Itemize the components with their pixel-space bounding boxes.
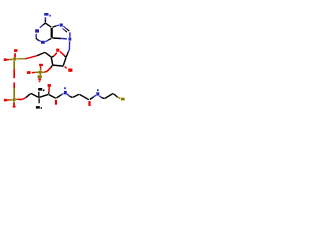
atom N10 label with H	[96, 89, 99, 95]
hydroxyl HO label left of P2	[4, 99, 13, 102]
bond C3p-OH	[48, 87, 51, 94]
atom N9 label	[69, 38, 72, 41]
bond C5'-O5' black half	[37, 52, 45, 55]
bond N7=C8 double	[62, 26, 69, 32]
bond C3p-C4a	[49, 95, 56, 99]
bond C2'-O2'	[65, 67, 67, 69]
bond N10-C11	[99, 96, 104, 99]
bond C6-C5	[46, 23, 52, 27]
atom P1 label	[13, 57, 16, 60]
oxygen O double-bonded below C4a amide 1	[55, 100, 57, 105]
oxygen O double-bonded above P1	[14, 49, 17, 57]
atom N3 label	[41, 41, 45, 44]
bond C5-N7	[52, 25, 59, 27]
thiol SH label	[121, 98, 125, 101]
bond P1 right arm	[16, 58, 25, 60]
bond O5' red run	[25, 56, 37, 59]
atom N7 label	[60, 24, 63, 27]
bond C4-N9	[52, 37, 67, 40]
atom P3 label	[38, 71, 41, 74]
methyl CH3 top label	[38, 88, 44, 91]
bond C12-S	[113, 94, 120, 99]
bond Cq-C3p	[39, 94, 48, 97]
bond C2'-C3'	[53, 65, 64, 66]
atom O4' label	[56, 49, 59, 52]
bond C6c-C7	[73, 94, 79, 97]
hydroxyl HO label left of P1	[4, 58, 13, 61]
hydroxyl OH label below right of C2'	[68, 69, 72, 72]
bond P3-O3' ester right arm	[42, 65, 53, 72]
hydroxyl OH label on C3p	[48, 84, 51, 87]
oxygen O double-bonded below P2	[13, 101, 16, 107]
bond Cq-CH3 bottom	[38, 98, 40, 103]
bond O4'-C4'	[52, 53, 57, 58]
bond C3'-C4'	[51, 57, 52, 65]
amine NH2 label	[44, 13, 51, 17]
bond C11-C12	[105, 94, 113, 99]
bond N9-C1'	[66, 41, 70, 57]
bond Cq-CH3 top	[38, 92, 40, 97]
hydroxyl OH below P3	[38, 74, 42, 83]
bond P1-O bridge	[13, 61, 15, 78]
bond O4'-C1'	[60, 52, 66, 58]
atom P2 label	[13, 98, 16, 101]
bond C8-N9	[69, 32, 71, 37]
bond N5-C6c	[67, 94, 73, 98]
bond NH2-C6	[44, 17, 46, 22]
bond C8a-N10	[90, 95, 96, 99]
bond C2-N3	[37, 39, 41, 41]
bond C6-N1	[40, 23, 46, 28]
bond C1p-Cq	[31, 93, 39, 97]
atom N1 label	[35, 29, 39, 32]
bond O bridge-P2	[13, 82, 15, 97]
bond N3-C4	[45, 38, 51, 41]
bond C4a-N5	[56, 94, 63, 99]
bond N1-C2	[35, 34, 37, 39]
bond C7-C8a	[80, 94, 89, 99]
methyl CH3 bottom label	[36, 106, 42, 109]
bond C1'-C2'	[63, 58, 66, 66]
bond P2-O ester right arm	[16, 94, 31, 100]
hydroxyl HO label left of P3	[27, 71, 38, 74]
atom N5 label with H	[64, 87, 67, 94]
oxygen O double-bonded below C8a amide 2	[88, 101, 90, 106]
bond C4'-C5'	[45, 52, 51, 57]
oxygen O double-bonded above P3	[39, 64, 43, 71]
bond C4=C5 double merged	[51, 28, 53, 38]
